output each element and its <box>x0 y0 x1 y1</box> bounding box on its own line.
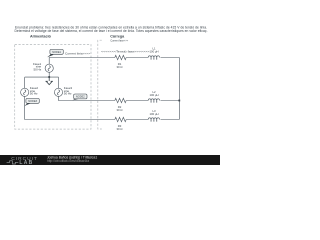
svg-text:50 Hz: 50 Hz <box>33 67 41 71</box>
dashed box Alimentació <box>15 45 91 130</box>
problem statement text <box>15 26 208 33</box>
voltage source V2 Fase2 <box>21 88 29 96</box>
svg-text:<<<<<<<Tensió fase>>>>>>>: <<<<<<<Tensió fase>>>>>>> <box>101 49 150 53</box>
svg-text:Corrent fase>>>: Corrent fase>>> <box>110 39 128 43</box>
wire V1 bottom to neutral bus <box>25 72 59 88</box>
resistor R3 <box>114 117 127 122</box>
node tag NODE3 <box>24 98 39 106</box>
junction right bus <box>178 100 180 102</box>
svg-text:30 Ω: 30 Ω <box>117 127 123 131</box>
svg-text:30 Ω: 30 Ω <box>117 65 123 69</box>
node tag NODE2 <box>72 94 87 100</box>
resistor R1 <box>114 55 127 60</box>
svg-text:http://circuitlab.com/c6ssw4kz: http://circuitlab.com/c6ssw4kz <box>47 159 90 163</box>
wire V3 bottom to branch2 <box>59 97 115 101</box>
svg-text:LAB: LAB <box>19 160 33 165</box>
wire branch3 between R3 and L3 <box>127 119 148 121</box>
svg-text:NODE2: NODE2 <box>76 95 85 99</box>
inductor L3 <box>148 118 159 122</box>
voltage source V1 Fase1 <box>45 64 53 72</box>
wire V2 bottom to bottom bus <box>25 97 115 120</box>
svg-text:100 μH: 100 μH <box>149 50 158 54</box>
wire branch2 right <box>161 100 180 102</box>
svg-text:100 μH: 100 μH <box>149 112 158 116</box>
svg-text:Alimentació: Alimentació <box>30 34 52 38</box>
dashed box Càrrega (left edge and stubs) <box>98 40 102 129</box>
wire branch1 between R1 and L1 <box>127 57 148 59</box>
wire branch3 right <box>161 119 180 121</box>
svg-text:NODE1: NODE1 <box>52 50 61 54</box>
svg-text:NODE3: NODE3 <box>28 99 37 103</box>
svg-text:50 Hz: 50 Hz <box>30 91 38 95</box>
circuitlab logo <box>7 156 38 166</box>
wire branch1 right + right bus <box>161 58 180 120</box>
svg-text:Corrent línia>>>>: Corrent línia>>>> <box>65 52 91 56</box>
svg-text:50 Hz: 50 Hz <box>64 91 72 95</box>
ground symbol <box>46 77 53 85</box>
footer bar <box>0 155 220 165</box>
wire branch2 between R2 and L2 <box>127 100 148 102</box>
inductor L2 <box>148 99 159 103</box>
svg-text:100 μH: 100 μH <box>149 93 158 97</box>
svg-text:30 Ω: 30 Ω <box>117 108 123 112</box>
resistor R2 <box>114 98 127 103</box>
inductor L1 <box>148 56 159 60</box>
wire branch1 top <box>49 58 114 64</box>
junction neutral <box>48 76 50 78</box>
voltage source V3 Fase3 <box>54 88 62 96</box>
svg-text:Determina el voltatge de fase: Determina el voltatge de fase del sistem… <box>15 29 208 33</box>
node tag NODE1 <box>47 49 63 57</box>
